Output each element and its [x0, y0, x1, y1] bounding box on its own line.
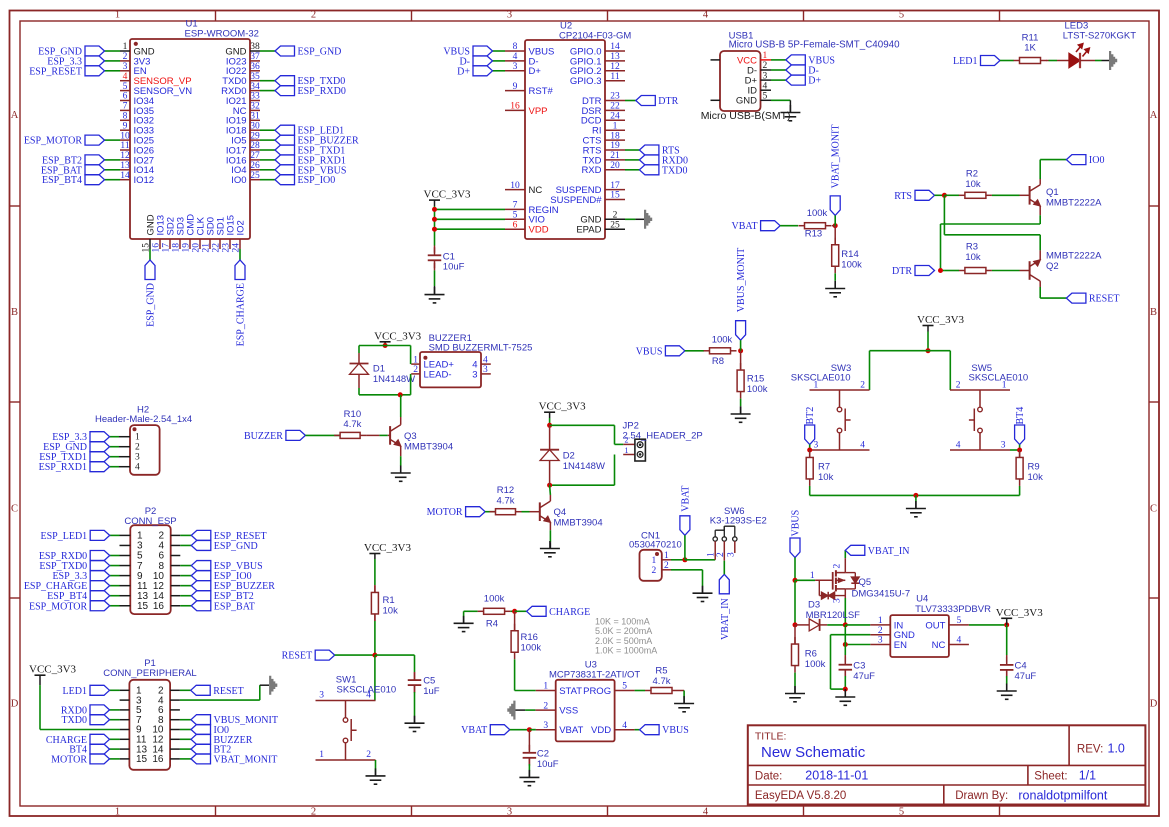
svg-text:Q4: Q4: [554, 507, 567, 518]
svg-text:VPP: VPP: [529, 106, 548, 117]
svg-text:Micro USB-B 5P-Female-SMT_C409: Micro USB-B 5P-Female-SMT_C40940: [729, 40, 901, 51]
svg-text:10uF: 10uF: [537, 759, 559, 770]
svg-text:D2: D2: [563, 451, 575, 462]
svg-text:10: 10: [120, 131, 130, 141]
svg-text:100k: 100k: [747, 384, 768, 395]
svg-text:100k: 100k: [807, 208, 828, 219]
svg-text:10K = 100mA: 10K = 100mA: [595, 617, 650, 627]
svg-text:D1: D1: [373, 364, 385, 375]
svg-text:DMG3415U-7: DMG3415U-7: [852, 589, 911, 600]
svg-text:7: 7: [513, 201, 518, 211]
svg-text:11: 11: [610, 72, 619, 82]
svg-text:MOTOR: MOTOR: [51, 754, 87, 765]
svg-text:2018-11-01: 2018-11-01: [805, 769, 868, 783]
svg-text:R15: R15: [747, 374, 764, 385]
svg-text:R3: R3: [966, 241, 978, 252]
svg-text:Q3: Q3: [404, 431, 417, 442]
svg-text:4.7k: 4.7k: [653, 676, 671, 687]
svg-text:24: 24: [610, 112, 620, 122]
svg-text:IO2: IO2: [235, 220, 246, 235]
svg-text:SKSCLAE010: SKSCLAE010: [791, 373, 851, 384]
svg-text:D: D: [11, 699, 19, 710]
svg-text:34: 34: [250, 82, 260, 92]
svg-text:CONN_ESP: CONN_ESP: [124, 516, 176, 527]
svg-text:2.0K = 500mA: 2.0K = 500mA: [595, 636, 652, 646]
svg-text:Sheet:: Sheet:: [1034, 771, 1067, 783]
svg-text:1: 1: [878, 616, 883, 626]
svg-text:25: 25: [610, 220, 620, 230]
svg-text:100k: 100k: [712, 334, 733, 345]
svg-text:OUT: OUT: [925, 620, 945, 631]
svg-text:1: 1: [319, 750, 324, 760]
svg-text:1: 1: [543, 682, 548, 692]
svg-text:17: 17: [610, 181, 620, 191]
svg-text:1: 1: [123, 42, 128, 52]
svg-text:5: 5: [123, 82, 128, 92]
svg-text:32: 32: [250, 102, 260, 112]
svg-text:IO0: IO0: [1089, 155, 1105, 166]
svg-text:4: 4: [622, 721, 627, 731]
svg-text:5.0K = 200mA: 5.0K = 200mA: [595, 626, 652, 636]
svg-text:35: 35: [250, 72, 260, 82]
svg-text:3: 3: [726, 552, 736, 557]
svg-text:NC: NC: [932, 640, 946, 651]
svg-text:0530470210: 0530470210: [629, 539, 682, 550]
svg-text:2: 2: [413, 365, 418, 375]
svg-text:29: 29: [250, 131, 260, 141]
svg-text:BT4: BT4: [1015, 407, 1026, 425]
svg-text:2: 2: [123, 52, 128, 62]
svg-text:VBAT_IN: VBAT_IN: [720, 598, 731, 640]
svg-text:2: 2: [652, 566, 657, 576]
svg-text:DTR: DTR: [658, 96, 678, 107]
svg-text:VBUS: VBUS: [791, 510, 802, 537]
svg-text:NC: NC: [529, 185, 543, 196]
svg-text:ESP_LED1: ESP_LED1: [41, 531, 88, 542]
svg-text:VBAT_MONIT: VBAT_MONIT: [214, 754, 278, 765]
svg-text:SUSPEND#: SUSPEND#: [550, 195, 602, 206]
svg-text:B: B: [1150, 307, 1157, 318]
svg-text:2: 2: [366, 750, 371, 760]
svg-text:15: 15: [610, 191, 620, 201]
svg-text:2: 2: [833, 564, 843, 569]
svg-text:47uF: 47uF: [853, 671, 875, 682]
svg-text:ESP_MOTOR: ESP_MOTOR: [24, 136, 82, 147]
svg-text:VSS: VSS: [559, 706, 578, 717]
svg-text:K3-1293S-E2: K3-1293S-E2: [710, 515, 767, 526]
svg-text:MCP73831T-2ATI/OT: MCP73831T-2ATI/OT: [549, 669, 640, 680]
svg-text:4: 4: [123, 72, 128, 82]
svg-text:100k: 100k: [484, 594, 505, 605]
svg-text:VDD: VDD: [591, 725, 611, 736]
svg-text:8: 8: [123, 112, 128, 122]
svg-text:DTR: DTR: [892, 266, 912, 277]
svg-text:R2: R2: [966, 169, 978, 180]
svg-text:TITLE:: TITLE:: [755, 731, 787, 743]
svg-text:SKSCLAE010: SKSCLAE010: [969, 373, 1029, 384]
svg-text:R7: R7: [818, 462, 830, 473]
svg-text:13: 13: [610, 52, 620, 62]
svg-text:1: 1: [115, 807, 120, 818]
svg-text:9: 9: [513, 82, 518, 92]
svg-text:28: 28: [250, 141, 260, 151]
svg-text:ESP_CHARGE: ESP_CHARGE: [236, 283, 247, 346]
svg-text:D+: D+: [529, 66, 542, 77]
svg-text:ESP_GND: ESP_GND: [298, 47, 342, 58]
svg-text:3: 3: [507, 807, 512, 818]
svg-text:TXD0: TXD0: [662, 165, 688, 176]
svg-text:ESP-WROOM-32: ESP-WROOM-32: [185, 29, 259, 40]
svg-text:31: 31: [250, 112, 260, 122]
svg-text:5: 5: [622, 682, 627, 692]
svg-text:VCC_3V3: VCC_3V3: [917, 314, 965, 326]
svg-text:EasyEDA V5.8.20: EasyEDA V5.8.20: [755, 790, 846, 802]
svg-text:VCC_3V3: VCC_3V3: [29, 664, 77, 676]
svg-text:C2: C2: [537, 749, 549, 760]
svg-text:15: 15: [137, 601, 149, 612]
svg-text:ESP_RXD0: ESP_RXD0: [298, 86, 346, 97]
svg-text:C4: C4: [1015, 661, 1027, 672]
svg-text:30: 30: [250, 121, 260, 131]
svg-text:1uF: 1uF: [423, 686, 440, 697]
svg-text:2: 2: [311, 9, 316, 20]
svg-text:C5: C5: [423, 676, 435, 687]
svg-text:MOTOR: MOTOR: [427, 507, 463, 518]
svg-text:RXD: RXD: [581, 165, 601, 176]
svg-text:VBUS: VBUS: [636, 346, 663, 357]
svg-text:LEAD-: LEAD-: [424, 369, 452, 380]
svg-text:1: 1: [1002, 381, 1007, 391]
svg-text:MMBT2222A: MMBT2222A: [1046, 251, 1102, 262]
svg-text:CONN_PERIPHERAL: CONN_PERIPHERAL: [103, 668, 196, 679]
svg-text:MMBT3904: MMBT3904: [404, 441, 453, 452]
svg-text:6: 6: [513, 220, 518, 230]
svg-text:VCC_3V3: VCC_3V3: [364, 542, 412, 554]
svg-text:1: 1: [135, 433, 140, 443]
svg-text:ronaldotpmilfont: ronaldotpmilfont: [1018, 789, 1107, 803]
svg-text:1: 1: [613, 121, 618, 131]
svg-text:16: 16: [152, 243, 162, 253]
svg-text:4: 4: [956, 441, 961, 451]
svg-text:4: 4: [513, 52, 518, 62]
svg-text:LED1: LED1: [953, 56, 977, 67]
svg-text:1N4148W: 1N4148W: [563, 461, 605, 472]
svg-text:36: 36: [250, 62, 260, 72]
svg-text:D+: D+: [457, 66, 470, 77]
svg-text:EN: EN: [894, 640, 907, 651]
svg-text:3: 3: [123, 62, 128, 72]
svg-text:1N4148W: 1N4148W: [373, 374, 415, 385]
svg-text:TLV73333PDBVR: TLV73333PDBVR: [915, 604, 991, 615]
svg-text:3: 3: [135, 453, 140, 463]
svg-text:5: 5: [899, 9, 904, 20]
svg-text:R6: R6: [805, 649, 817, 660]
svg-text:2: 2: [878, 626, 883, 636]
svg-text:23: 23: [610, 92, 620, 102]
svg-text:U4: U4: [916, 594, 928, 605]
svg-text:R4: R4: [486, 619, 498, 630]
svg-text:20: 20: [610, 161, 620, 171]
svg-text:1: 1: [625, 446, 629, 455]
svg-text:R5: R5: [655, 666, 667, 677]
svg-text:C: C: [11, 504, 18, 515]
svg-text:4: 4: [703, 807, 709, 818]
svg-text:16: 16: [153, 601, 165, 612]
svg-text:BT2: BT2: [805, 407, 816, 425]
svg-text:4: 4: [483, 355, 488, 365]
svg-text:1: 1: [664, 551, 669, 561]
svg-text:3: 3: [319, 691, 324, 701]
svg-text:5: 5: [957, 616, 962, 626]
svg-text:10uF: 10uF: [443, 262, 465, 273]
svg-text:16: 16: [510, 102, 520, 112]
svg-text:9: 9: [123, 121, 128, 131]
svg-text:IO0: IO0: [231, 175, 246, 186]
svg-text:D3: D3: [808, 600, 820, 611]
svg-text:1: 1: [413, 355, 418, 365]
svg-text:3: 3: [878, 636, 883, 646]
svg-text:Q2: Q2: [1046, 261, 1059, 272]
svg-text:VBAT: VBAT: [680, 486, 691, 512]
svg-text:Q1: Q1: [1046, 187, 1059, 198]
svg-text:4: 4: [135, 463, 140, 473]
svg-text:1K: 1K: [1024, 43, 1036, 54]
svg-text:VCC_3V3: VCC_3V3: [996, 607, 1044, 619]
svg-text:12: 12: [610, 62, 620, 72]
svg-text:15: 15: [136, 754, 148, 765]
svg-text:R1: R1: [383, 595, 395, 606]
svg-text:22: 22: [610, 102, 620, 112]
svg-text:13: 13: [120, 161, 130, 171]
svg-text:1: 1: [652, 556, 657, 566]
svg-text:27: 27: [250, 151, 260, 161]
svg-text:CHARGE: CHARGE: [549, 607, 590, 618]
svg-text:REV:: REV:: [1077, 744, 1103, 756]
svg-text:SMD BUZZERMLT-7525: SMD BUZZERMLT-7525: [429, 343, 533, 354]
svg-text:2: 2: [135, 443, 140, 453]
svg-text:GPIO.3: GPIO.3: [570, 76, 602, 87]
svg-text:3: 3: [814, 441, 819, 451]
svg-text:3: 3: [543, 721, 548, 731]
svg-text:RESET: RESET: [1089, 294, 1120, 305]
svg-text:100k: 100k: [521, 643, 542, 654]
svg-text:3: 3: [513, 62, 518, 72]
svg-text:10k: 10k: [383, 606, 399, 617]
svg-text:25: 25: [250, 171, 260, 181]
svg-text:2: 2: [956, 381, 961, 391]
svg-text:R8: R8: [712, 356, 724, 367]
svg-text:RESET: RESET: [282, 651, 313, 662]
svg-text:EPAD: EPAD: [576, 225, 601, 236]
svg-text:LED1: LED1: [63, 686, 87, 697]
svg-text:7: 7: [123, 102, 128, 112]
svg-text:Date:: Date:: [755, 771, 783, 783]
svg-text:ESP_RESET: ESP_RESET: [29, 66, 82, 77]
svg-text:STAT: STAT: [559, 686, 582, 697]
svg-text:D: D: [1150, 699, 1158, 710]
svg-text:ESP_IO0: ESP_IO0: [298, 175, 336, 186]
svg-text:MMBT2222A: MMBT2222A: [1046, 198, 1102, 209]
svg-text:21: 21: [202, 243, 212, 253]
svg-text:R14: R14: [841, 249, 858, 260]
svg-text:14: 14: [610, 42, 620, 52]
svg-text:23: 23: [222, 243, 232, 253]
svg-text:RTS: RTS: [894, 191, 912, 202]
svg-text:17: 17: [162, 243, 172, 253]
svg-text:1: 1: [115, 9, 120, 20]
svg-text:C: C: [1150, 504, 1157, 515]
svg-text:ESP_GND: ESP_GND: [214, 541, 258, 552]
svg-text:38: 38: [250, 42, 260, 52]
svg-text:VDD: VDD: [529, 225, 549, 236]
svg-text:8: 8: [513, 42, 518, 52]
svg-text:14: 14: [120, 171, 130, 181]
svg-text:18: 18: [610, 131, 620, 141]
svg-text:10k: 10k: [818, 472, 834, 483]
svg-text:RESET: RESET: [213, 686, 244, 697]
svg-text:3: 3: [483, 365, 488, 375]
svg-text:19: 19: [182, 243, 192, 253]
svg-text:Micro USB-B(SMT): Micro USB-B(SMT): [701, 110, 791, 122]
svg-text:D+: D+: [808, 76, 821, 87]
svg-text:LTST-S270KGKT: LTST-S270KGKT: [1063, 31, 1136, 42]
svg-text:VBUS_MONIT: VBUS_MONIT: [736, 248, 747, 312]
svg-text:VBAT_IN: VBAT_IN: [868, 546, 910, 557]
svg-text:2.54_HEADER_2P: 2.54_HEADER_2P: [623, 431, 703, 442]
svg-text:PROG: PROG: [583, 686, 611, 697]
svg-text:VBAT: VBAT: [461, 725, 487, 736]
svg-text:R13: R13: [805, 229, 822, 240]
svg-text:2: 2: [664, 561, 669, 571]
svg-text:16: 16: [152, 754, 164, 765]
svg-text:2: 2: [613, 211, 618, 221]
svg-text:12: 12: [120, 151, 130, 161]
svg-text:3: 3: [1001, 441, 1006, 451]
svg-text:1/1: 1/1: [1079, 769, 1096, 783]
svg-text:19: 19: [610, 141, 620, 151]
svg-text:100k: 100k: [805, 659, 826, 670]
svg-text:Header-Male-2.54_1x4: Header-Male-2.54_1x4: [95, 414, 192, 425]
svg-text:R16: R16: [521, 632, 538, 643]
svg-text:VBAT: VBAT: [559, 725, 583, 736]
svg-text:26: 26: [250, 161, 260, 171]
svg-text:4: 4: [860, 441, 865, 451]
svg-text:ESP_BAT: ESP_BAT: [214, 601, 255, 612]
svg-text:4: 4: [703, 9, 709, 20]
svg-text:B: B: [11, 307, 18, 318]
svg-text:2: 2: [716, 552, 726, 557]
svg-text:1: 1: [810, 571, 815, 581]
svg-text:Drawn By:: Drawn By:: [955, 790, 1008, 802]
svg-text:10: 10: [510, 181, 520, 191]
svg-text:10k: 10k: [965, 179, 981, 190]
svg-text:47uF: 47uF: [1015, 671, 1037, 682]
svg-text:2: 2: [311, 807, 316, 818]
svg-text:VCC_3V3: VCC_3V3: [424, 189, 472, 201]
svg-text:20: 20: [192, 243, 202, 253]
svg-text:21: 21: [610, 151, 620, 161]
svg-text:BUZZER: BUZZER: [244, 431, 283, 442]
svg-text:10k: 10k: [1028, 472, 1044, 483]
svg-text:GND: GND: [736, 96, 757, 107]
svg-text:22: 22: [212, 243, 222, 253]
svg-text:VBAT: VBAT: [731, 221, 757, 232]
svg-text:R9: R9: [1028, 462, 1040, 473]
svg-text:New Schematic: New Schematic: [761, 744, 866, 761]
svg-text:A: A: [1150, 110, 1158, 121]
svg-text:3: 3: [507, 9, 512, 20]
svg-text:6: 6: [123, 92, 128, 102]
svg-text:VBUS: VBUS: [662, 725, 689, 736]
svg-text:5: 5: [513, 211, 518, 221]
svg-text:1: 1: [814, 381, 819, 391]
svg-text:100k: 100k: [841, 260, 862, 271]
svg-text:10k: 10k: [965, 252, 981, 263]
svg-text:1.0: 1.0: [1108, 742, 1125, 756]
svg-text:3: 3: [472, 369, 477, 380]
svg-text:Q5: Q5: [859, 577, 872, 588]
svg-text:A: A: [11, 110, 19, 121]
svg-text:TXD0: TXD0: [61, 715, 87, 726]
svg-text:R12: R12: [497, 485, 514, 496]
svg-text:VCC_3V3: VCC_3V3: [539, 401, 587, 413]
svg-text:37: 37: [250, 52, 260, 62]
svg-text:18: 18: [172, 243, 182, 253]
svg-text:ESP_MOTOR: ESP_MOTOR: [29, 601, 87, 612]
svg-text:C3: C3: [853, 661, 865, 672]
svg-text:ESP_GND: ESP_GND: [146, 283, 157, 327]
svg-text:4: 4: [366, 691, 371, 701]
svg-text:IO12: IO12: [134, 175, 155, 186]
svg-text:4.7k: 4.7k: [497, 496, 515, 507]
svg-text:4.7k: 4.7k: [343, 419, 361, 430]
svg-text:VBAT_MONIT: VBAT_MONIT: [831, 125, 842, 189]
svg-text:1.0K = 1000mA: 1.0K = 1000mA: [595, 646, 657, 656]
svg-text:33: 33: [250, 92, 260, 102]
svg-text:11: 11: [120, 141, 129, 151]
svg-text:5: 5: [899, 807, 904, 818]
svg-text:VCC_3V3: VCC_3V3: [374, 330, 422, 342]
svg-text:CP2104-F03-GM: CP2104-F03-GM: [559, 31, 631, 42]
svg-text:MBR120LSF: MBR120LSF: [806, 610, 861, 621]
svg-text:ESP_BT4: ESP_BT4: [42, 175, 82, 186]
svg-text:2: 2: [860, 381, 865, 391]
svg-text:RST#: RST#: [529, 86, 554, 97]
svg-text:MMBT3904: MMBT3904: [554, 518, 603, 529]
svg-text:ESP_RXD1: ESP_RXD1: [39, 462, 87, 473]
svg-text:4: 4: [957, 636, 962, 646]
